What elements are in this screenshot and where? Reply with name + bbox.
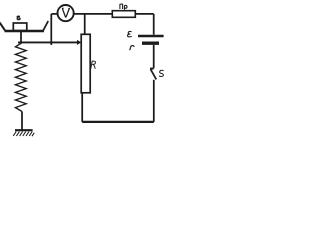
rod spring to support xyxy=(21,112,23,131)
wire junction down to rheostat top xyxy=(84,14,86,34)
spring xyxy=(15,43,26,112)
wire from bath to rheostat wiper xyxy=(18,41,78,43)
label B xyxy=(17,16,20,20)
label epsilon xyxy=(127,31,131,36)
label R xyxy=(91,61,96,69)
wire rheostat bottom xyxy=(81,93,83,122)
wire voltmeter left lead vertical xyxy=(50,14,52,43)
bottom wire xyxy=(82,121,154,123)
support hatching xyxy=(13,132,34,137)
wire switch to bottom corner xyxy=(153,80,155,122)
wiper arrowhead xyxy=(77,40,81,45)
junction tick xyxy=(50,42,52,45)
top wire fuse to right corner xyxy=(135,13,153,15)
wire to voltmeter xyxy=(51,13,58,15)
bath vessel bottom xyxy=(5,30,45,33)
label Pr xyxy=(120,4,127,10)
switch blade xyxy=(151,69,157,79)
block B in bath xyxy=(13,23,26,31)
right wire down to battery xyxy=(153,14,155,35)
wire battery to switch xyxy=(153,45,155,68)
top wire from voltmeter to fuse xyxy=(74,13,113,15)
rod from vessel bottom to wire xyxy=(20,32,22,43)
label S xyxy=(159,70,164,76)
voltmeter letter V xyxy=(62,8,70,17)
label r xyxy=(130,46,134,51)
voltmeter V circle xyxy=(58,5,74,21)
bath vessel right wall xyxy=(43,21,48,31)
battery short plate xyxy=(142,42,159,45)
rheostat R box xyxy=(81,34,90,93)
switch upper contact xyxy=(150,68,154,70)
fixed support bar xyxy=(15,129,33,131)
fuse box Pr xyxy=(112,11,135,18)
battery long plate xyxy=(138,35,164,38)
bath vessel left wall xyxy=(0,23,5,31)
